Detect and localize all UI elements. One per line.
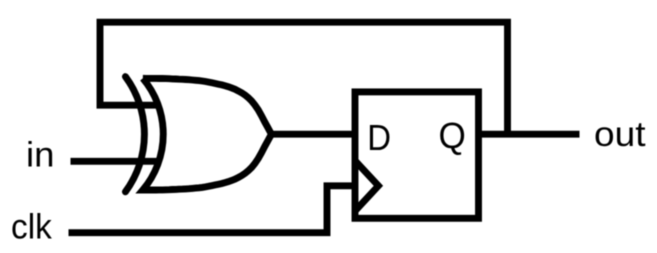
wire Q output to out — [479, 131, 580, 138]
flip-flop U2 box — [355, 92, 479, 218]
svg-text:Q: Q — [439, 115, 466, 156]
svg-text:out: out — [594, 115, 646, 154]
wire XOR output to D input — [271, 131, 355, 138]
flip-flop U2 clock wedge — [355, 161, 378, 211]
wire feedback loop from Q junction to XOR upper input — [100, 22, 508, 137]
svg-text:D: D — [367, 117, 391, 158]
wire in — [71, 158, 159, 165]
wire clk — [69, 186, 353, 233]
xor-gate U1 leading input arc — [125, 77, 144, 192]
xor-gate U1 body — [143, 78, 272, 190]
svg-text:in: in — [26, 135, 55, 174]
svg-text:clk: clk — [11, 208, 52, 247]
